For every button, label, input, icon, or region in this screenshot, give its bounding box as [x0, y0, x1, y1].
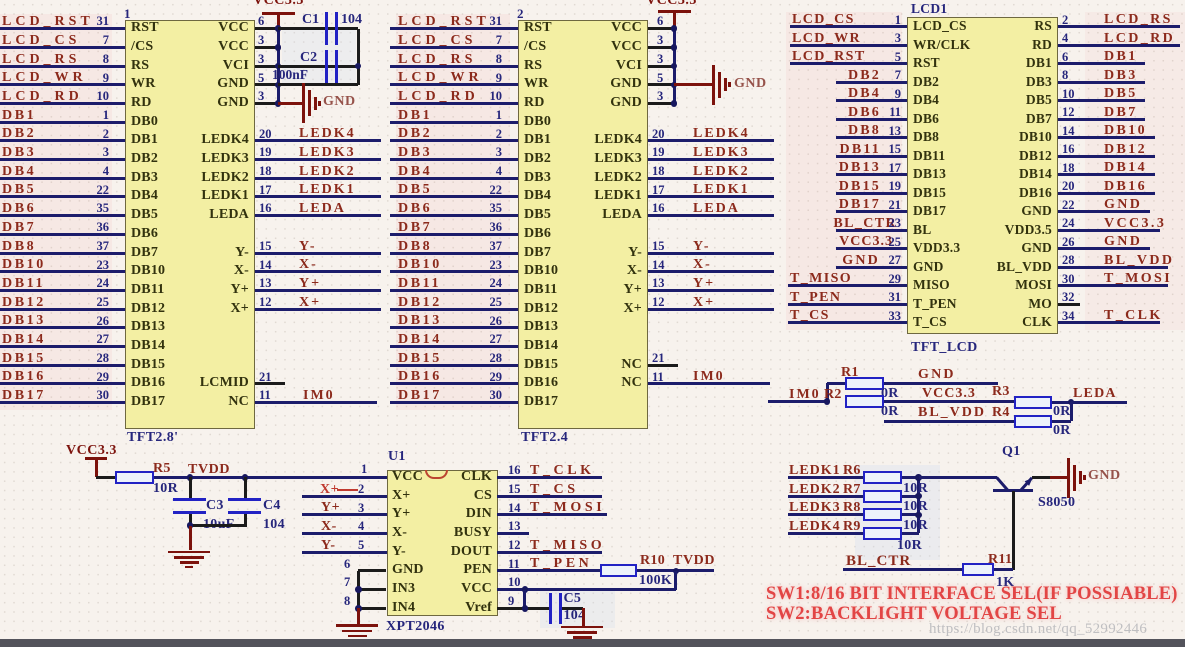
- net label IM0 (R2): [789, 388, 821, 402]
- wire net LEDK1 (block1 right): [255, 195, 381, 198]
- value 104 (C5): [564, 609, 586, 623]
- designator U1: [388, 450, 406, 464]
- net label GND: [1104, 235, 1142, 249]
- pin name DB17 (LCD1 left): [913, 204, 946, 218]
- wire net X- (block2 right): [648, 270, 774, 273]
- net label LCD_RS: [398, 53, 476, 67]
- net label LEDA: [299, 202, 346, 216]
- pin 24 TFT2.8: [97, 277, 110, 290]
- wire net DB16 from LCD1 pin 20: [1058, 192, 1155, 195]
- wire net LEDK4 (block1 right): [255, 139, 381, 142]
- wire pin 32 stub LCD1: [1058, 303, 1080, 306]
- label TFT_LCD (block3 name): [911, 341, 978, 355]
- net label X+ (U1): [320, 483, 339, 497]
- pin 5 TFT2.8 right: [258, 72, 264, 85]
- net label T_CLK: [530, 464, 595, 478]
- wire TFT2.8 power pin stub row 1: [255, 27, 278, 30]
- net label LCD_RST: [792, 50, 866, 64]
- wire net LEDK2 to R7: [788, 495, 863, 498]
- wire net DB8 to LCD1 pin 13: [836, 136, 907, 139]
- pin name DB12 (TFT2.4): [524, 302, 558, 316]
- label R2: [824, 388, 842, 402]
- wire net DB4 to LCD1 pin 9: [836, 99, 907, 102]
- capacitor C2: [325, 50, 328, 83]
- pin 31 TFT2.4: [490, 15, 503, 28]
- net label X-: [299, 258, 318, 272]
- wire R11 to Q1 base: [994, 568, 1013, 571]
- wire net IM0 (to R1/R2): [768, 400, 827, 403]
- wire net T_PEN to LCD1 pin 31: [788, 303, 907, 306]
- wire R6 right lead: [902, 476, 919, 479]
- pin 11 TFT2.4: [652, 371, 664, 384]
- pin 14 TFT2.8 right: [259, 259, 272, 272]
- junction rail row 2 (block1): [275, 44, 282, 51]
- pin name DB7 (TFT2.4): [524, 246, 551, 260]
- wire net DB13 to TFT2.8 pin 26: [0, 326, 125, 329]
- net label Y+: [299, 277, 321, 291]
- value 10R (R6): [903, 482, 928, 496]
- wire net DB17 to LCD1 pin 21: [836, 210, 907, 213]
- ground (C3/C4): [168, 551, 210, 554]
- net label LCD_RST: [2, 15, 94, 29]
- pin 4 TFT2.4: [496, 165, 502, 178]
- net label DB15: [839, 180, 881, 194]
- wire net LCD_RS to TFT2.8 pin 8: [0, 65, 125, 68]
- label C1: [302, 13, 319, 27]
- net label DB10: [2, 258, 46, 272]
- wire net LCD_RS to TFT2.4 pin 8: [390, 65, 518, 68]
- wire net Y- to U1 pin 5: [302, 551, 387, 554]
- net label DB4: [2, 165, 36, 179]
- pin name DB12 (LCD1 right): [1019, 149, 1052, 163]
- wire net LCD_RD to TFT2.8 pin 10: [0, 102, 125, 105]
- net label BL VDD (R4): [918, 406, 986, 420]
- wire net T_MISO to LCD1 pin 29: [788, 284, 907, 287]
- resistor R1 0R: [845, 377, 884, 390]
- wire net DB10 to TFT2.8 pin 23: [0, 270, 125, 273]
- pin 15 LCD1: [889, 143, 902, 156]
- wire Q1 base bar: [993, 489, 1033, 492]
- value 10R (R8): [903, 519, 928, 533]
- net label Y+ (U1): [321, 501, 340, 515]
- pin name DB0 (TFT2.4): [524, 115, 551, 129]
- pin name T_PEN (LCD1 left): [913, 297, 957, 311]
- net label X- (U1): [321, 520, 337, 534]
- pin 25 LCD1: [889, 236, 902, 249]
- pin name DB11 (TFT2.8): [131, 283, 164, 297]
- pin name LCD_CS (LCD1 left): [913, 19, 967, 33]
- pin 27 TFT2.8: [97, 333, 110, 346]
- net label DB5: [1104, 87, 1138, 101]
- junction TVDD / C4: [242, 474, 249, 481]
- wire net Y+ (block2 right): [648, 289, 774, 292]
- net label DB7: [1104, 106, 1138, 120]
- designator LCD1: [911, 2, 947, 16]
- pin 36 TFT2.4: [490, 221, 503, 234]
- text SW2 note: [766, 605, 1062, 624]
- pin 25 TFT2.8: [97, 296, 110, 309]
- pin name RST (LCD1 left): [913, 56, 940, 70]
- pin name MISO (LCD1 left): [913, 278, 950, 292]
- pin 2 U1: [358, 483, 364, 496]
- net label LEDK4: [789, 520, 841, 534]
- net label LCD_RD: [1104, 32, 1175, 46]
- pin 9 LCD1: [895, 88, 901, 101]
- pin name X+ (TFT2.4 right): [624, 302, 643, 316]
- wire R4 right lead: [1052, 420, 1071, 423]
- net label DB13: [839, 161, 881, 175]
- pin name GND (LCD1 left): [913, 260, 944, 274]
- wire VCC3.3 to R5: [96, 476, 115, 479]
- junction R6 node: [915, 474, 922, 481]
- wire net DB6 to TFT2.8 pin 35: [0, 214, 125, 217]
- junction pin10 / C5 branch: [522, 586, 529, 593]
- power VCC3.3 label (block2, clipped at top): [646, 0, 697, 8]
- pin name DB14 (TFT2.4): [524, 339, 558, 353]
- net label LCD_CS: [792, 13, 855, 27]
- wire net LCD_WR to LCD1 pin 3: [790, 44, 907, 47]
- pin name X- (TFT2.4 right): [627, 264, 642, 278]
- value 1K (R11): [996, 576, 1015, 590]
- wire net LCD_WR to TFT2.4 pin 9: [390, 83, 518, 86]
- pin name DB16 (TFT2.8): [131, 376, 165, 390]
- pin name X+ (TFT2.8 right): [231, 302, 250, 316]
- wire net DB5 to TFT2.4 pin 22: [390, 195, 518, 198]
- pin name LEDK4 (TFT2.8 right): [201, 133, 249, 147]
- net label DB14: [398, 333, 442, 347]
- net label DB6: [2, 202, 36, 216]
- pin 28 TFT2.4: [490, 352, 503, 365]
- pin 4 LCD1 right: [1062, 32, 1068, 45]
- wire C3 bottom lead: [189, 514, 192, 527]
- wire C5 ground stem: [582, 608, 585, 626]
- wire R4 up to LEDA: [1070, 402, 1073, 421]
- wire net Y- (block2 right): [648, 252, 774, 255]
- pin 9 U1 right: [508, 595, 514, 608]
- pin 8 TFT2.4: [496, 53, 502, 66]
- pin name BL (LCD1 left): [913, 223, 931, 237]
- pin 8 TFT2.8: [103, 53, 109, 66]
- wire net DB13 to LCD1 pin 17: [836, 173, 907, 176]
- pin 4 U1: [358, 520, 364, 533]
- wire net LCD_WR to TFT2.8 pin 9: [0, 83, 125, 86]
- wire net T_MISO from U1 pin 12: [497, 551, 602, 554]
- pin 29 TFT2.8: [97, 371, 110, 384]
- pin 26 TFT2.4: [490, 315, 503, 328]
- wire net Y- (block1 right): [255, 252, 381, 255]
- pin 20 TFT2.4 right: [652, 128, 665, 141]
- wire net X+ (block1 right): [255, 308, 381, 311]
- label C3: [206, 499, 224, 513]
- pin name DB16 (TFT2.4): [524, 376, 558, 390]
- wire net T_CS from U1 pin 15: [497, 495, 602, 498]
- pin name DB10 (LCD1 right): [1019, 130, 1052, 144]
- pin 16 U1 right: [508, 464, 521, 477]
- wire net DB1 to TFT2.8 pin 1: [0, 121, 125, 124]
- ground GND (block1 top): [302, 83, 305, 123]
- pin 13 U1 right: [508, 520, 521, 533]
- pin name RS (TFT2.4): [524, 59, 542, 73]
- junction LEDA: [1068, 399, 1075, 406]
- pin name DB15 (TFT2.8): [131, 358, 165, 372]
- wire net VCC3.3 (R2 to R3): [884, 400, 1014, 403]
- wire TFT2.8 power pin stub row 5: [255, 102, 278, 105]
- label R11: [988, 553, 1012, 567]
- pin name GND (TFT2.4 right): [610, 96, 642, 110]
- net label DB1: [1104, 50, 1138, 64]
- designator 1 (TFT2.8'): [124, 7, 131, 20]
- wire U1 pin 7 stub: [358, 588, 386, 591]
- pin name LEDK2 (TFT2.4 right): [594, 171, 642, 185]
- pin name VCC (U1 right): [461, 582, 492, 596]
- net label LEDK1: [789, 464, 841, 478]
- wire pin 13 stub U1: [497, 532, 529, 535]
- pin 5 U1: [358, 539, 364, 552]
- pin name DB5 (LCD1 right): [1026, 93, 1052, 107]
- net label DB7: [2, 221, 36, 235]
- wire net DB16 to TFT2.4 pin 29: [390, 382, 518, 385]
- power VCC3.3 (left bottom): [66, 444, 117, 458]
- wire R8 right lead: [902, 513, 919, 516]
- pin name NC (TFT2.4 right): [621, 358, 642, 372]
- net label LCD_WR: [398, 71, 483, 85]
- pin 30 TFT2.4: [490, 389, 503, 402]
- wire U1 pin 6 stub: [358, 569, 386, 572]
- label C4: [263, 499, 281, 513]
- pin name DB11 (LCD1 left): [913, 149, 945, 163]
- value 0R (R1): [881, 387, 899, 401]
- wire net DB17 to TFT2.8 pin 30: [0, 401, 125, 404]
- wire C5 to ground stem: [562, 607, 583, 610]
- wire net T PEN from U1 pin 11: [497, 569, 599, 572]
- pin 1 LCD1: [895, 14, 901, 27]
- wire TFT2.8 power pin stub row 3: [255, 65, 278, 68]
- wire net VCC3.3 from LCD1 pin 24: [1058, 229, 1160, 232]
- pin 18 LCD1 right: [1062, 162, 1075, 175]
- ground GND (block2 top): [712, 65, 715, 105]
- net label X+: [693, 296, 715, 310]
- pin name VCC (TFT2.4 right): [611, 40, 642, 54]
- wire net T_CLK from LCD1 pin 34: [1058, 321, 1160, 324]
- resistor R6 10R: [863, 471, 902, 484]
- pin name GND (U1 left): [392, 563, 424, 577]
- junction R7 node: [915, 493, 922, 500]
- pin 15 TFT2.4 right: [652, 240, 665, 253]
- wire net DB10 to TFT2.4 pin 23: [390, 270, 518, 273]
- pin 7 TFT2.4: [496, 34, 502, 47]
- pin name LEDK1 (TFT2.4 right): [594, 189, 642, 203]
- wire TFT2.4 power pin stub row 4: [648, 83, 674, 86]
- wire C2 row (block1): [278, 65, 358, 68]
- wire TFT2.8 power pin stub row 2: [255, 46, 278, 49]
- pin 21 LCD1: [889, 199, 902, 212]
- wire net TVDD (R10 junction): [637, 569, 714, 572]
- pin 7 U1: [344, 576, 350, 589]
- pin name DB3 (LCD1 right): [1026, 75, 1052, 89]
- wire R7 right lead: [902, 495, 919, 498]
- pin 10 LCD1 right: [1062, 88, 1075, 101]
- pin 11 LCD1: [889, 106, 901, 119]
- wire Q1 base down to R11: [1012, 491, 1015, 570]
- pin name VCC (TFT2.8 right): [218, 21, 249, 35]
- wire pin 21 stub (block2): [648, 364, 678, 367]
- net label T_MOSI: [530, 501, 605, 515]
- pin 10 TFT2.4: [490, 90, 503, 103]
- wire C4 bottom lead: [244, 514, 247, 527]
- pin name Vref (U1 right): [465, 601, 492, 615]
- wire VCC3.3 stem (block1): [277, 14, 280, 29]
- wire U1 pin 10 to TVDD rail: [497, 588, 675, 591]
- wire net LCD_RST to TFT2.4 pin 31: [390, 27, 518, 30]
- label R4: [992, 406, 1010, 420]
- pin 16 TFT2.4 right: [652, 202, 665, 215]
- wire net GND from LCD1 pin 26: [1058, 247, 1150, 250]
- wire net DB15 to TFT2.4 pin 28: [390, 364, 518, 367]
- net label LEDK3: [789, 501, 841, 515]
- pin 5 LCD1: [895, 51, 901, 64]
- net label BL CTR: [846, 554, 911, 569]
- wire net LEDK4 to R9: [788, 532, 863, 535]
- pin 30 TFT2.8: [97, 389, 110, 402]
- pin name NC (TFT2.4 right): [621, 376, 642, 390]
- wire C1 row (block1): [278, 27, 358, 30]
- wire net DB10 from LCD1 pin 14: [1058, 136, 1155, 139]
- wire net X- to U1 pin 4: [302, 532, 387, 535]
- resistor R5 10R: [115, 471, 154, 484]
- wire to R1: [827, 382, 845, 385]
- pin 7 LCD1: [895, 69, 901, 82]
- net label VCC3.3: [839, 235, 893, 249]
- net label LCD_WR: [792, 32, 861, 46]
- pin 6 TFT2.4 right: [657, 15, 663, 28]
- junction rail row 4 (block2): [671, 82, 678, 89]
- net label LCD_RS: [2, 53, 80, 67]
- IC U1 XPT2046 touch controller: [387, 470, 498, 617]
- pin name DB14 (LCD1 right): [1019, 167, 1052, 181]
- wire net DB11 to TFT2.8 pin 24: [0, 289, 125, 292]
- junction rail row 5 (block2): [671, 100, 678, 107]
- junction U1 pin8: [355, 605, 362, 612]
- net label T_CS: [530, 483, 579, 497]
- resistor R10 100K: [600, 564, 637, 577]
- wire net T_MOSI from U1 pin 14: [497, 513, 607, 516]
- net label IM0 (block2): [693, 370, 725, 384]
- net label DB12: [398, 296, 442, 310]
- wire red dash after X+: [337, 489, 358, 491]
- value 10R (R5): [153, 482, 178, 496]
- transistor Q1 S8050 (NPN): [985, 468, 1045, 498]
- wire net LCD_RS from LCD1 pin 2: [1058, 25, 1180, 28]
- wire R9 right lead: [902, 532, 919, 535]
- label C2: [300, 51, 317, 65]
- power VCC3.3 bar (left bottom): [85, 457, 107, 460]
- wire net DB2 to TFT2.4 pin 2: [390, 139, 518, 142]
- wire net DB3 to TFT2.8 pin 3: [0, 158, 125, 161]
- pin 23 TFT2.8: [97, 259, 110, 272]
- net label BL_VDD: [1104, 254, 1174, 268]
- net label T_MISO: [790, 272, 852, 286]
- net label T_MOSI: [1104, 272, 1172, 286]
- pin 22 LCD1 right: [1062, 199, 1075, 212]
- pin 27 TFT2.4: [490, 333, 503, 346]
- wire net GND from LCD1 pin 22: [1058, 210, 1150, 213]
- wire net DB4 to TFT2.8 pin 4: [0, 177, 125, 180]
- text SW1 note: [766, 585, 1178, 604]
- pin name VDD3.5 (LCD1 right): [1005, 223, 1052, 237]
- pin name DB11 (TFT2.4): [524, 283, 557, 297]
- wire net DB1 from LCD1 pin 6: [1058, 62, 1145, 65]
- pin 12 LCD1 right: [1062, 106, 1075, 119]
- wire net X+ to U1 pin 2: [302, 495, 387, 498]
- wire net DB3 to TFT2.4 pin 3: [390, 158, 518, 161]
- net label TVDD: [188, 463, 230, 477]
- wire net VCC3.3 to LCD1 pin 25: [836, 247, 907, 250]
- pin name RST (TFT2.4): [524, 21, 552, 35]
- wire net LEDK2 (block2 right): [648, 177, 774, 180]
- pin 25 TFT2.4: [490, 296, 503, 309]
- pin 30 LCD1 right: [1062, 273, 1075, 286]
- pin 17 TFT2.4 right: [652, 184, 665, 197]
- label TFT2.4 (block2 name): [521, 431, 568, 445]
- net label LEDK1: [693, 183, 750, 197]
- pin 29 TFT2.4: [490, 371, 503, 384]
- pin name DB13 (TFT2.4): [524, 320, 558, 334]
- wire net LEDK3 to R8: [788, 513, 863, 516]
- pin 2 LCD1 right: [1062, 14, 1068, 27]
- wire net T_CLK from U1 pin 16: [497, 476, 602, 479]
- label S8050 (Q1): [1038, 496, 1075, 510]
- pin name DB15 (TFT2.4): [524, 358, 558, 372]
- net label DB15: [398, 352, 442, 366]
- pin 37 TFT2.4: [490, 240, 503, 253]
- resistor R8 10R: [863, 508, 902, 521]
- junction rail row 1 (block1): [275, 25, 282, 32]
- wire C3-C4 bottom rail: [190, 524, 245, 527]
- pin name DB4 (TFT2.4): [524, 189, 551, 203]
- label GND (block2 top): [734, 77, 767, 91]
- pin 7 TFT2.8: [103, 34, 109, 47]
- pin 12 TFT2.8 right: [259, 296, 272, 309]
- net label DB10: [1104, 124, 1147, 138]
- pin name DB2 (TFT2.8): [131, 152, 158, 166]
- label R1: [841, 366, 859, 380]
- net label GND: [842, 254, 880, 268]
- wire C3 top lead: [189, 477, 192, 498]
- pin name DB3 (TFT2.8): [131, 171, 158, 185]
- pin name Y- (TFT2.8 right): [235, 246, 249, 260]
- resistor R2 0R: [845, 395, 884, 408]
- wire net DB5 to TFT2.8 pin 22: [0, 195, 125, 198]
- value 0R (R3): [1053, 405, 1071, 419]
- pin 6 LCD1 right: [1062, 51, 1068, 64]
- pin 23 TFT2.4: [490, 259, 503, 272]
- bottom gray bar: [0, 639, 1185, 647]
- pin 31 TFT2.8: [97, 15, 110, 28]
- pin 27 LCD1: [889, 254, 902, 267]
- wire R3 to LEDA junction: [1052, 401, 1071, 404]
- net label DB5: [398, 183, 432, 197]
- pin 14 TFT2.4 right: [652, 259, 665, 272]
- pin name T_CS (LCD1 left): [913, 315, 947, 329]
- wire net T_MOSI from LCD1 pin 30: [1058, 284, 1168, 287]
- pin 24 TFT2.4: [490, 277, 503, 290]
- pin 26 TFT2.8: [97, 315, 110, 328]
- pin name DB7 (LCD1 right): [1026, 112, 1052, 126]
- pin 3 TFT2.8 right: [258, 53, 264, 66]
- wire net LCD_RD to TFT2.4 pin 10: [390, 102, 518, 105]
- net label DB2: [2, 127, 36, 141]
- net label LCD_CS: [2, 34, 80, 48]
